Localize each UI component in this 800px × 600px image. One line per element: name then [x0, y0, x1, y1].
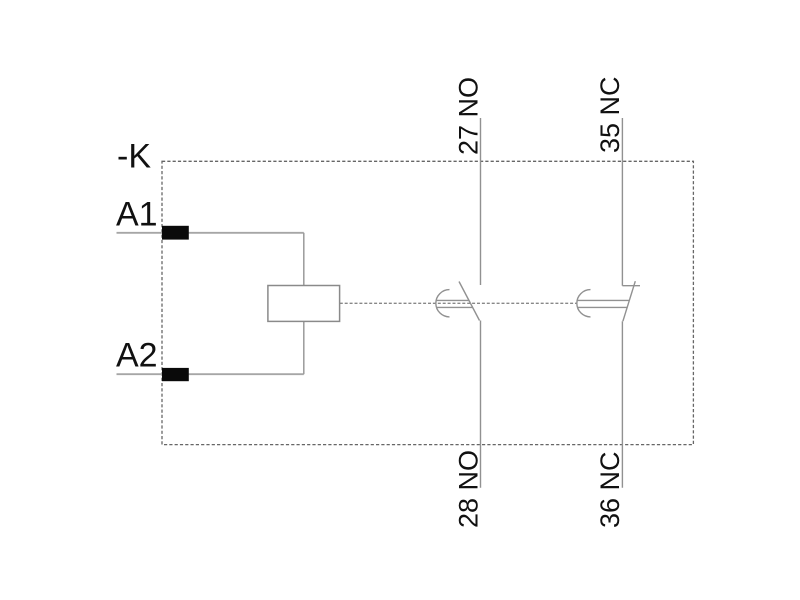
svg-text:27 NO: 27 NO [454, 77, 484, 155]
svg-text:35 NC: 35 NC [595, 76, 625, 153]
svg-text:28 NO: 28 NO [454, 450, 484, 528]
svg-text:A1: A1 [116, 196, 158, 234]
svg-text:A2: A2 [116, 337, 158, 375]
svg-text:-K: -K [117, 138, 151, 176]
svg-text:36 NC: 36 NC [595, 451, 625, 528]
